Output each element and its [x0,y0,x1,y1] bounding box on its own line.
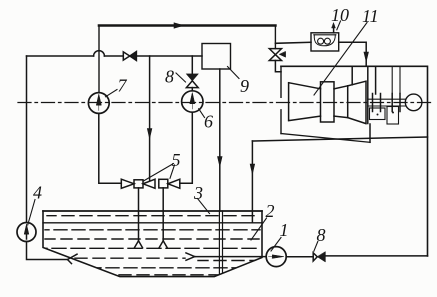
svg-text:7: 7 [118,76,128,96]
svg-text:2: 2 [266,201,275,221]
svg-text:6: 6 [204,112,213,132]
svg-text:3: 3 [193,183,203,203]
svg-text:8: 8 [165,67,174,87]
svg-text:11: 11 [362,6,379,26]
svg-text:9: 9 [240,76,249,96]
svg-text:8: 8 [317,225,326,245]
svg-text:10: 10 [331,5,349,25]
svg-text:1: 1 [280,220,289,240]
svg-text:4: 4 [33,183,42,203]
svg-text:5: 5 [172,150,181,170]
